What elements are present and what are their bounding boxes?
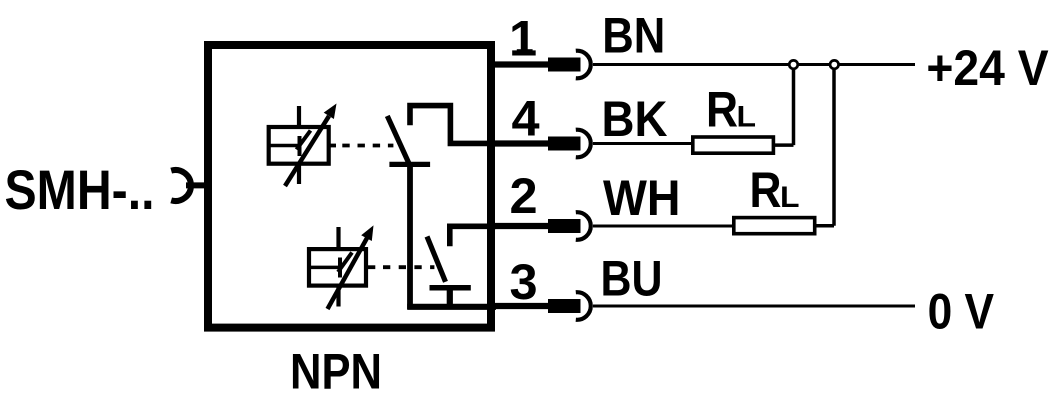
svg-text:4: 4 [512, 89, 540, 146]
adjustment arrow of B2 [328, 225, 374, 309]
svg-text:BK: BK [602, 90, 668, 147]
wire RL2 to node 2 [814, 65, 834, 226]
svg-text:WH: WH [603, 169, 681, 226]
wire rail Q1 output to pin3 [407, 164, 413, 309]
dashed actuation link 1 [329, 144, 393, 148]
wire WH to RL2 [593, 225, 733, 228]
label RL2 [750, 162, 800, 218]
dashed actuation link 2 [366, 265, 434, 269]
pin 1 contact [491, 51, 591, 79]
svg-text:R: R [706, 81, 738, 137]
adjustment arrow of B1 [285, 104, 337, 187]
connector plug left [171, 170, 211, 201]
junction node 2 [830, 60, 839, 69]
svg-text:+24 V: +24 V [926, 39, 1049, 96]
svg-text:SMH-..: SMH-.. [5, 159, 155, 221]
wire BU to 0V [593, 305, 915, 308]
svg-text:L: L [737, 100, 757, 133]
pin 3 contact [491, 292, 591, 320]
sensor body box [208, 45, 491, 328]
svg-text:L: L [780, 181, 800, 214]
resistor RL2 [734, 218, 815, 234]
svg-text:1: 1 [509, 9, 537, 66]
wire RL1 to node 1 [773, 65, 794, 146]
svg-text:2: 2 [510, 167, 538, 224]
proximity sensor B2 [309, 227, 366, 307]
transistor switch Q1 [387, 106, 496, 165]
wire BN to +24V rail [593, 63, 915, 66]
wire BK to RL1 [593, 142, 692, 145]
junction node 1 [789, 60, 798, 69]
wire pin3 internal [407, 304, 496, 310]
transistor switch Q2 [427, 226, 496, 306]
svg-text:0 V: 0 V [928, 282, 995, 339]
svg-text:3: 3 [509, 253, 537, 310]
foot of digit 1 [517, 49, 533, 54]
pin 2 contact [491, 212, 591, 240]
svg-text:R: R [750, 162, 782, 218]
pin 4 contact [491, 130, 591, 158]
label RL1 [706, 81, 756, 137]
resistor RL1 [693, 137, 774, 153]
proximity sensor B1 [269, 106, 329, 184]
svg-text:NPN: NPN [290, 344, 382, 400]
svg-text:BN: BN [602, 7, 665, 64]
svg-text:BU: BU [601, 250, 663, 307]
